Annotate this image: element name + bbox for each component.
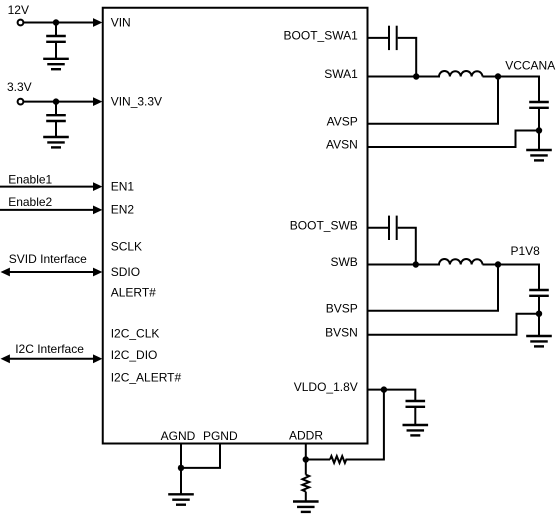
wire Enable2 xyxy=(0,209,94,211)
wire C2 to ground xyxy=(55,121,57,137)
wire BOOT_SWB to C4 xyxy=(368,227,388,229)
svg-text:BOOT_SWB: BOOT_SWB xyxy=(290,218,358,232)
arrow I2C left xyxy=(1,354,10,363)
wire 3.3V to VIN_3.3V xyxy=(24,101,94,103)
junction P1V8 sense node xyxy=(495,261,501,267)
IC U1 xyxy=(103,8,368,444)
wire SWB xyxy=(368,264,440,266)
wire AVSP xyxy=(368,77,498,124)
wire BVSN xyxy=(368,314,539,335)
arrow into VIN xyxy=(93,18,102,27)
wire C1 to ground xyxy=(55,42,57,59)
ground C2 xyxy=(43,137,69,147)
arrow into VIN_3.3V xyxy=(93,97,102,106)
arrow into EN2 xyxy=(93,206,102,215)
svg-text:SCLK: SCLK xyxy=(111,240,142,254)
svg-text:EN1: EN1 xyxy=(111,179,135,193)
junction C5 gnd node xyxy=(536,127,542,133)
inductor L2 xyxy=(439,259,483,264)
svg-text:EN2: EN2 xyxy=(111,203,135,217)
wire R2 to ground xyxy=(305,492,307,502)
svg-text:PGND: PGND xyxy=(203,429,238,443)
resistor R1 xyxy=(330,456,348,463)
svg-text:AVSN: AVSN xyxy=(326,138,358,152)
junction C6 gnd node xyxy=(536,311,542,317)
svg-text:SVID Interface: SVID Interface xyxy=(9,252,87,266)
wire gnd node to ground xyxy=(538,314,540,336)
arrow into EN1 xyxy=(93,182,102,191)
junction SWB node xyxy=(413,261,419,267)
svg-text:I2C Interface: I2C Interface xyxy=(15,342,84,356)
svg-text:ALERT#: ALERT# xyxy=(111,285,156,299)
wire BVSP xyxy=(368,265,498,311)
junction ADDR node xyxy=(303,456,309,462)
ground P1V8 xyxy=(526,336,552,346)
svg-text:BOOT_SWA1: BOOT_SWA1 xyxy=(284,28,359,42)
wire SWA1 xyxy=(368,76,440,78)
capacitor C6 xyxy=(529,290,549,296)
ground VCCANA xyxy=(526,150,552,160)
svg-text:VCCANA: VCCANA xyxy=(505,59,555,73)
svg-text:AGND: AGND xyxy=(161,429,196,443)
wire gnd node to ground xyxy=(538,131,540,151)
wire node to ground xyxy=(180,468,182,494)
svg-text:VIN: VIN xyxy=(111,15,131,29)
wire I2C bus xyxy=(8,358,94,360)
capacitor C2 xyxy=(46,115,66,121)
svg-text:3.3V: 3.3V xyxy=(7,80,32,94)
svg-text:12V: 12V xyxy=(8,3,29,17)
arrow SVID right xyxy=(93,268,102,277)
capacitor C7 xyxy=(406,401,426,407)
junction VLDO node xyxy=(381,386,387,392)
junction VCCANA sense node xyxy=(495,73,501,79)
svg-text:VLDO_1.8V: VLDO_1.8V xyxy=(294,380,358,394)
terminal 3.3V xyxy=(18,99,24,105)
svg-text:SDIO: SDIO xyxy=(111,265,140,279)
wire C6 to gnd node xyxy=(538,296,540,314)
svg-text:Enable1: Enable1 xyxy=(8,172,52,186)
wire C4 to SWB node xyxy=(398,228,416,265)
resistor R2 xyxy=(302,475,309,492)
junction SWA1 node xyxy=(413,73,419,79)
wire AGND down xyxy=(180,444,182,468)
capacitor C5 xyxy=(529,102,549,108)
capacitor C1 xyxy=(46,36,66,42)
svg-text:AVSP: AVSP xyxy=(327,114,358,128)
svg-text:VIN_3.3V: VIN_3.3V xyxy=(111,95,162,109)
junction AGND PGND node xyxy=(178,465,184,471)
svg-text:I2C_CLK: I2C_CLK xyxy=(111,326,160,340)
wire VLDO_1.8V xyxy=(368,390,415,401)
wire C3 to SWA1 node xyxy=(398,38,417,77)
svg-text:BVSN: BVSN xyxy=(325,325,358,339)
inductor L1 xyxy=(439,71,483,76)
wire ADDR down xyxy=(305,444,307,460)
svg-text:I2C_DIO: I2C_DIO xyxy=(111,348,158,362)
svg-text:Enable2: Enable2 xyxy=(8,195,52,209)
wire AVSN xyxy=(368,131,539,148)
ground C1 xyxy=(43,59,69,69)
wire PGND down and over xyxy=(181,444,220,468)
svg-text:I2C_ALERT#: I2C_ALERT# xyxy=(111,371,182,385)
svg-text:SWB: SWB xyxy=(330,255,357,269)
wire C5 to gnd node xyxy=(538,108,540,131)
wire junction to C2 xyxy=(55,102,57,116)
arrow SVID left xyxy=(1,268,10,277)
arrow I2C right xyxy=(93,354,102,363)
wire BOOT_SWA1 to C3 xyxy=(368,37,388,39)
wire 12V to VIN xyxy=(24,22,94,24)
junction 12V node xyxy=(53,19,59,25)
capacitor C4 xyxy=(389,216,397,240)
wire ADDR to R1 xyxy=(306,459,330,461)
capacitor C3 xyxy=(389,26,397,50)
svg-text:P1V8: P1V8 xyxy=(511,244,541,258)
wire C7 to ground xyxy=(414,407,416,425)
wire SVID bus xyxy=(8,271,94,273)
wire L2 to P1V8 corner xyxy=(483,265,540,291)
terminal 12V xyxy=(18,20,24,26)
wire junction to C1 xyxy=(55,23,57,37)
wire R1 to VLDO node xyxy=(348,390,384,460)
wire L1 to VCCANA corner xyxy=(483,77,540,103)
wire ADDR node to R2 xyxy=(305,460,307,475)
svg-text:ADDR: ADDR xyxy=(289,428,323,442)
svg-text:BVSP: BVSP xyxy=(326,301,358,315)
svg-text:SWA1: SWA1 xyxy=(324,67,358,81)
wire Enable1 xyxy=(0,186,94,188)
ground AGND xyxy=(168,494,194,504)
ground ADDR xyxy=(293,502,319,512)
ground VLDO xyxy=(403,425,429,435)
junction 3.3V node xyxy=(53,98,59,104)
